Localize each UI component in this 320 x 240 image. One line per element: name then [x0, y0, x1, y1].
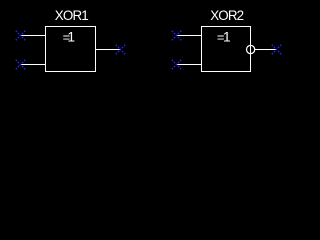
svg-text:XOR2: XOR2	[210, 8, 243, 23]
svg-text:1: 1	[67, 30, 75, 45]
svg-text:1: 1	[223, 30, 231, 45]
svg-text:XOR1: XOR1	[55, 8, 88, 23]
